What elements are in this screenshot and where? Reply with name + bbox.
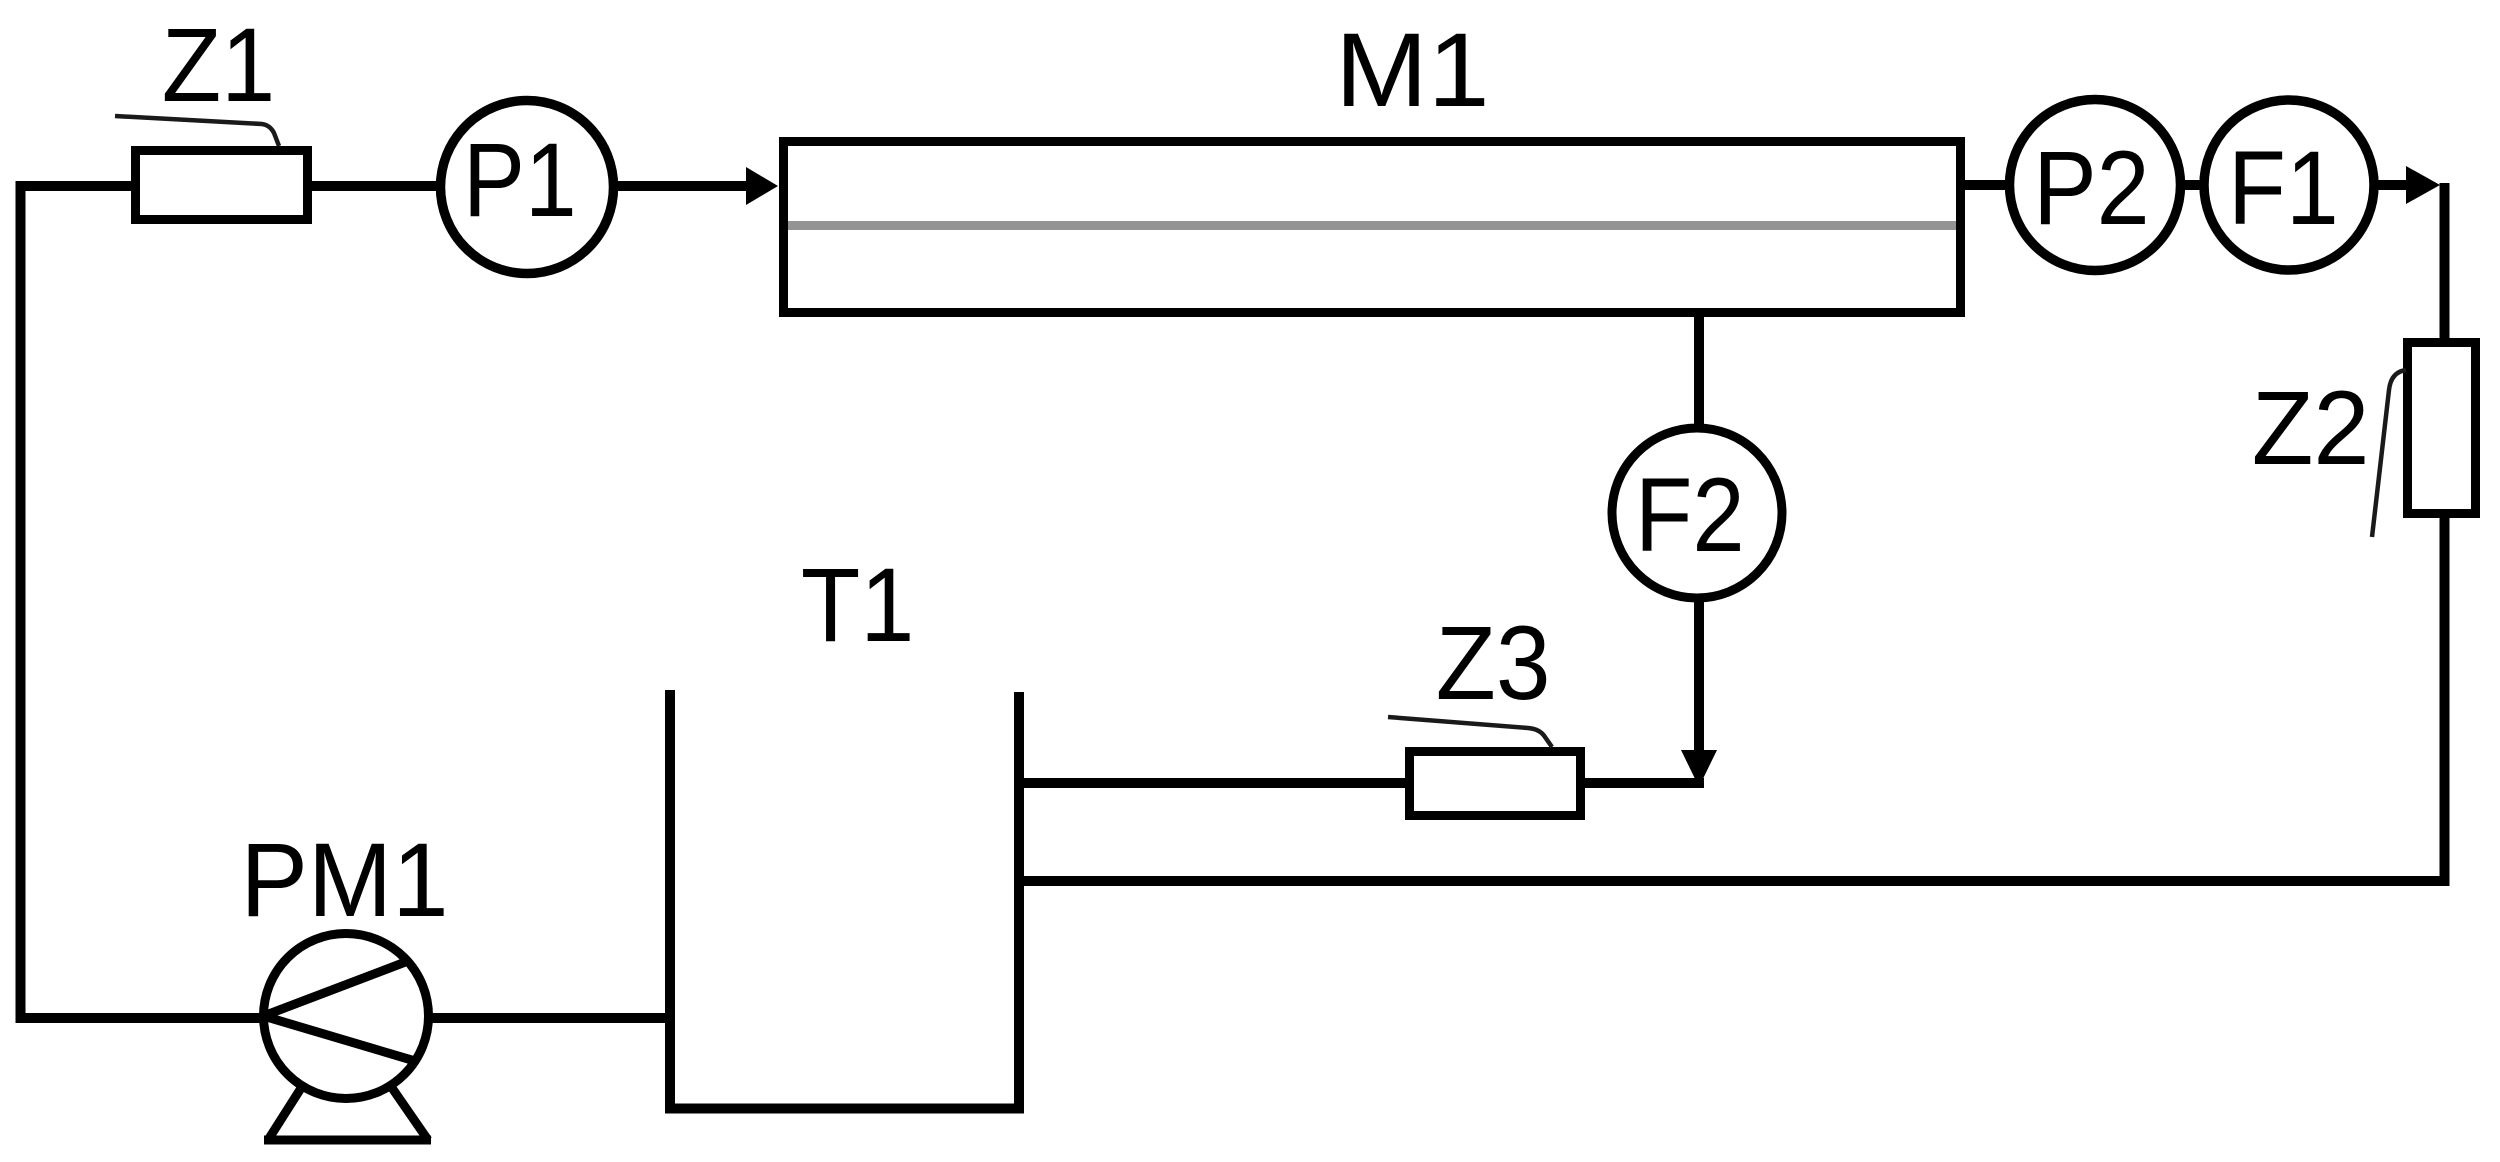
pump PM1 feet [264,1085,431,1140]
gauge P1 [441,101,614,274]
wire F2 down with arrow to junction [1694,598,1704,755]
pump PM1 vanes [264,961,409,1016]
valve Z3 [1410,752,1581,816]
wire P2 to F1 [2185,180,2204,190]
wire F1 to right corner with arrow [2378,180,2410,190]
wire right vertical lower [2440,518,2450,881]
wire M1 to P2 [1965,180,2010,190]
gauge F1 [2204,100,2374,270]
svg-text:M1: M1 [1335,12,1490,129]
valve Z2 lever [2372,370,2406,537]
svg-text:Z2: Z2 [2252,370,2370,487]
svg-text:Z3: Z3 [1436,605,1551,722]
wire left vertical [16,186,26,1023]
wire bottom long horizontal [1014,876,2450,886]
wire right vertical upper [2440,183,2450,342]
svg-text:Z1: Z1 [162,7,276,124]
wire Z3 to junction [1585,778,1704,788]
wire top-left horizontal [16,181,136,191]
svg-text:PM1: PM1 [240,822,448,939]
svg-text:P2: P2 [2033,130,2150,247]
svg-text:F1: F1 [2228,130,2339,247]
svg-text:T1: T1 [801,547,915,664]
svg-text:P1: P1 [463,122,577,239]
valve Z3 lever [1388,717,1552,747]
tank T1 [670,690,1019,1109]
wire M1 down to F2 [1694,312,1704,428]
wire pump to tank [430,1013,670,1023]
gauge F2 [1612,428,1782,598]
wire T1 to Z3 [1019,778,1410,788]
svg-text:F2: F2 [1635,457,1745,574]
module M1 box [784,142,1961,313]
valve Z2 [2408,343,2476,514]
pump PM1 circle [264,934,429,1099]
wire left to pump [16,1013,263,1023]
valve Z1 [136,151,308,220]
wire P1 to M1 with arrow [618,181,748,191]
gauge P2 [2010,100,2181,271]
membrane gray line [788,221,1956,230]
wire Z1 to P1 [312,181,440,191]
valve Z1 lever [115,116,279,146]
